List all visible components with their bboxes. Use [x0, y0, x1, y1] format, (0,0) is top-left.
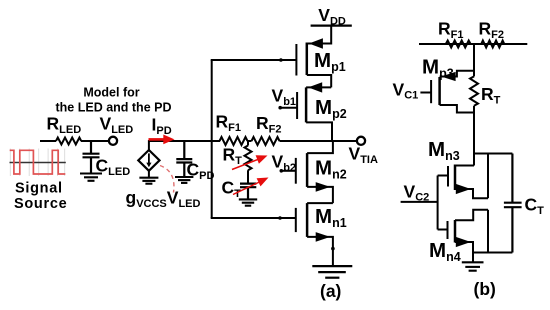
wire input to M_n1 gate	[211, 217, 296, 219]
svg-text:Source: Source	[14, 196, 67, 212]
svg-text:(a): (a)	[320, 281, 341, 301]
signal source axis line	[10, 162, 66, 164]
supply V_DD	[311, 24, 352, 26]
red variable arrow on C_T	[233, 182, 261, 195]
resistor R_F2 (b)	[481, 41, 504, 48]
resistor R_F1 (b)	[446, 41, 471, 48]
ground under M_n1	[312, 266, 352, 278]
wire signal to R_LED	[40, 140, 56, 142]
signal source waveform grid	[10, 149, 64, 177]
svg-text:the LED and the PD: the LED and the PD	[56, 101, 172, 115]
wire bottom horizontal (b)	[473, 252, 512, 254]
capacitor C_PD	[176, 141, 192, 177]
red current arrow I_PD	[149, 138, 165, 141]
wire junction between RF1 RF2	[248, 140, 252, 142]
resistor R_T (b) variable	[470, 76, 478, 105]
wire diamond to main wire	[148, 140, 150, 151]
red dashed annotation arc	[160, 166, 174, 193]
transistor M_n2	[296, 141, 333, 203]
ground under C_LED	[80, 174, 102, 181]
transistor M_p3	[431, 77, 474, 113]
wire input to M_p1 gate	[211, 59, 297, 61]
main wire node A horizontal	[149, 140, 220, 142]
capacitor C_LED	[83, 141, 100, 174]
wire R_F2 to output	[280, 140, 357, 142]
VCCS diamond current source	[138, 150, 159, 171]
signal source square wave	[10, 150, 66, 174]
node V_LED terminal circle	[109, 137, 117, 145]
wire M_p3 source branch	[440, 71, 474, 77]
transistor M_n3	[448, 165, 488, 199]
svg-text:Model for: Model for	[83, 86, 139, 100]
transistor M_n4	[448, 210, 489, 262]
node V_C1 stub	[420, 92, 431, 94]
node V_C2 stub	[401, 201, 438, 203]
transistor M_p2	[297, 87, 332, 141]
ground (b)	[462, 262, 484, 270]
svg-text:Signal: Signal	[15, 181, 63, 197]
resistor R_F1 (a)	[220, 137, 248, 145]
node input vertical wire	[211, 60, 213, 218]
ground under C_T (a)	[239, 199, 257, 205]
red variable arrow on R_T	[232, 159, 260, 170]
node V_b1 stub	[280, 107, 297, 109]
node junction vertical (b)	[473, 44, 475, 76]
resistor R_LED	[56, 138, 81, 145]
resistor R_T (a) variable	[247, 141, 249, 146]
wire inner vertical upper (b)	[487, 154, 489, 199]
svg-text:(b): (b)	[474, 279, 496, 299]
wire R_T to C_T	[247, 170, 249, 183]
wire R_LED to node	[81, 140, 109, 142]
ground under VCCS	[148, 171, 150, 178]
ground under C_PD	[175, 177, 193, 183]
capacitor C_T (b)	[504, 154, 522, 253]
wire top horizontal to C_T	[474, 153, 512, 155]
transistor M_n1	[296, 203, 333, 266]
wire V_C2 gate line	[437, 176, 439, 230]
node vertical below R_T	[473, 106, 475, 166]
transistor M_p1	[296, 26, 331, 88]
capacitor C_T (a) variable	[240, 184, 256, 200]
node V_b2 stub	[281, 170, 296, 172]
resistor R_F2 (a)	[252, 137, 280, 145]
wire top horizontal (b)	[419, 43, 527, 45]
node V_TIA output circle	[357, 137, 365, 145]
wire inner vertical lower (b)	[487, 210, 489, 253]
